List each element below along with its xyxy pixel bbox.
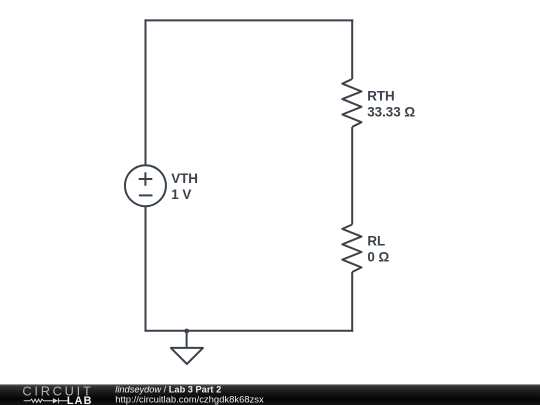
- logo wire with resistor squiggle: [24, 398, 68, 403]
- wire right middle: [351, 127, 353, 225]
- svg-text:33.33 Ω: 33.33 Ω: [367, 105, 415, 120]
- svg-text:VTH: VTH: [171, 171, 198, 186]
- wire left upper: [145, 19, 147, 165]
- svg-text:RL: RL: [367, 234, 385, 249]
- voltage source VTH circle: [125, 165, 166, 206]
- footer bar: [0, 384, 540, 405]
- ground triangle: [171, 348, 203, 364]
- svg-text:http://circuitlab.com/czhgdk8k: http://circuitlab.com/czhgdk8k68zsx: [115, 395, 264, 405]
- voltage source minus sign: [139, 194, 153, 196]
- resistor RL body: [342, 225, 361, 273]
- svg-text:1 V: 1 V: [171, 187, 191, 202]
- svg-text:RTH: RTH: [367, 88, 395, 103]
- wire right upper: [351, 19, 353, 79]
- logo diode cathode bar and wire: [58, 398, 67, 403]
- ground stem: [186, 331, 188, 347]
- logo diode triangle: [53, 398, 58, 403]
- svg-text:0 Ω: 0 Ω: [367, 250, 389, 265]
- resistor RTH body: [342, 79, 361, 127]
- voltage source plus sign: [139, 172, 153, 185]
- node junction dot: [184, 329, 189, 334]
- wire bottom: [145, 330, 354, 332]
- svg-text:LAB: LAB: [67, 395, 93, 405]
- wire left lower: [145, 206, 147, 332]
- svg-text:lindseydow / Lab 3 Part 2: lindseydow / Lab 3 Part 2: [115, 384, 221, 394]
- wire right lower: [351, 272, 353, 332]
- wire top: [145, 19, 354, 21]
